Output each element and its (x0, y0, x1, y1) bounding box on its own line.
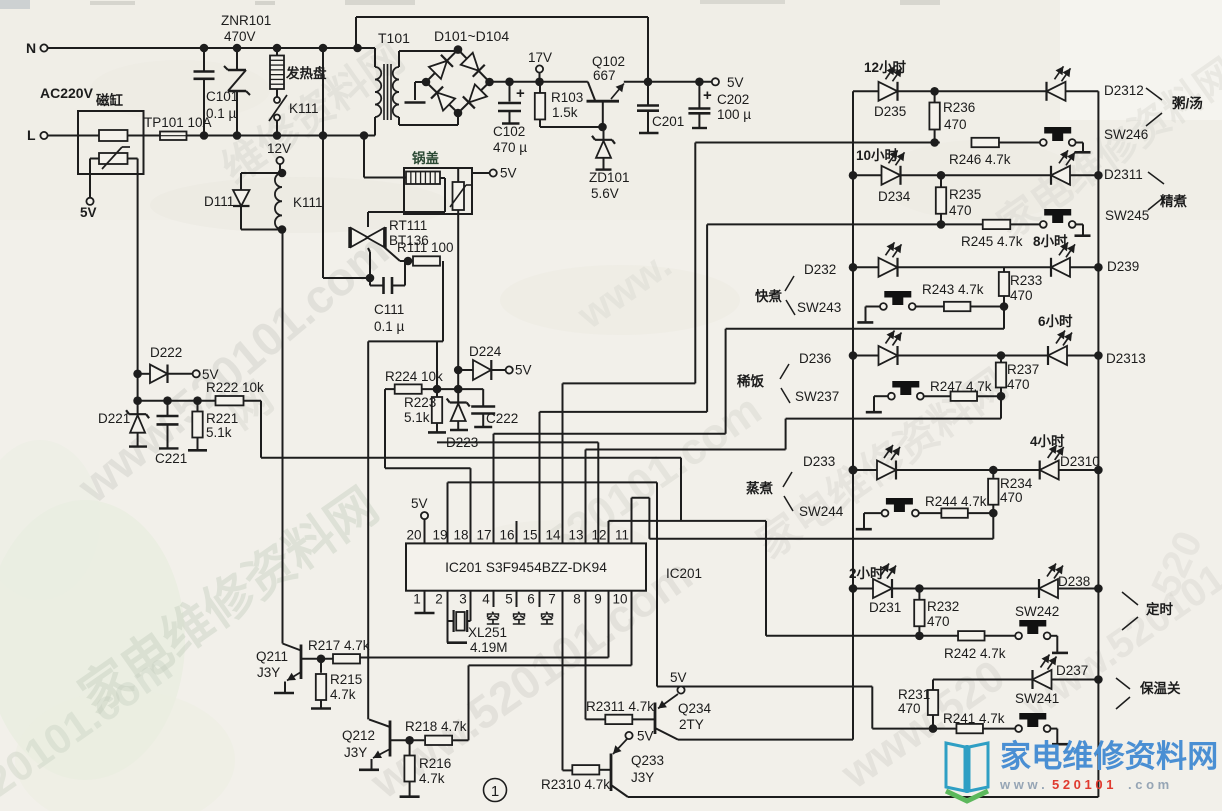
svg-text:470: 470 (1010, 288, 1033, 303)
node link-L (319, 131, 328, 140)
LED D2310 (1040, 445, 1100, 480)
pin 8 to R2311 (586, 591, 606, 720)
node R237 top (997, 351, 1006, 360)
svg-text:470 µ: 470 µ (493, 140, 527, 155)
switch SW237row (866, 381, 924, 412)
resistor R236 (929, 91, 975, 142)
svg-text:12: 12 (591, 528, 606, 543)
zener D223 (446, 389, 478, 450)
svg-text:667: 667 (593, 68, 616, 83)
node bridge right (485, 78, 494, 87)
switch SW243 (857, 291, 915, 322)
label 2小时 (849, 565, 884, 581)
wire thermistor net (261, 457, 681, 459)
scan mottle (90, 60, 1080, 570)
svg-text:D101~D104: D101~D104 (434, 28, 509, 44)
svg-text:J3Y: J3Y (344, 745, 367, 760)
node R235 bottom (937, 220, 946, 229)
svg-text:R111 100: R111 100 (397, 240, 454, 255)
svg-text:5V: 5V (637, 729, 654, 744)
transformer T101 primary (375, 67, 381, 117)
svg-text:4小时: 4小时 (1030, 433, 1065, 449)
svg-text:. c o m: . c o m (1128, 777, 1169, 792)
SW245 ground (1075, 224, 1091, 235)
resistor R232 (914, 589, 959, 636)
terminal N (26, 40, 48, 56)
svg-text:w w w .: w w w . (999, 777, 1045, 792)
svg-text:IC201: IC201 (666, 566, 702, 581)
svg-text:空: 空 (486, 611, 500, 627)
svg-text:0.1 µ: 0.1 µ (374, 319, 405, 334)
svg-text:R218 4.7k: R218 4.7k (405, 719, 467, 734)
LED D238 (1039, 564, 1090, 599)
wire top rail (356, 17, 648, 82)
pin 20 to 5V (411, 496, 428, 543)
resistor R218 (405, 719, 469, 745)
SW244 row wire (919, 512, 993, 514)
node Q212 base (405, 736, 414, 745)
LED D232 (879, 242, 902, 276)
capacitor C222 (471, 389, 518, 427)
svg-text:快煮: 快煮 (755, 288, 783, 304)
svg-text:R217 4.7k: R217 4.7k (308, 638, 370, 653)
row5 wire (853, 469, 1098, 471)
wire divider2 row (385, 388, 483, 390)
wire SW241 net to pin19 (448, 482, 658, 686)
resistor R233 (999, 267, 1042, 306)
Q212 base wire (390, 739, 424, 741)
switch SW242 (1015, 604, 1059, 639)
svg-text:ZNR101: ZNR101 (221, 13, 271, 28)
svg-text:R234: R234 (1000, 476, 1033, 491)
row2 wire (853, 174, 1098, 176)
svg-text:保温关: 保温关 (1139, 680, 1181, 696)
Q234 base wire (632, 718, 655, 720)
resistor R2311 (586, 699, 654, 724)
IC201 top pin numbers (406, 528, 629, 543)
row7 wire (933, 679, 1098, 681)
wire SW237 net to pin13 (586, 450, 786, 544)
resistor R246 (949, 138, 1011, 167)
svg-text:R243 4.7k: R243 4.7k (922, 282, 984, 297)
resistor R243 (922, 282, 984, 311)
svg-text:T101: T101 (378, 30, 410, 46)
svg-text:稀饭: 稀饭 (737, 373, 765, 389)
label 粥/汤 callout (1146, 88, 1203, 126)
svg-text:R216: R216 (419, 756, 451, 771)
svg-text:ZD101: ZD101 (589, 170, 630, 185)
svg-text:20: 20 (406, 528, 421, 543)
svg-text:R237: R237 (1007, 362, 1039, 377)
node row1 mid (930, 87, 939, 96)
svg-text:D238: D238 (1058, 574, 1090, 589)
svg-text:D231: D231 (869, 600, 901, 615)
svg-text:R233: R233 (1010, 273, 1042, 288)
svg-text:IC201 S3F9454BZZ-DK94: IC201 S3F9454BZZ-DK94 (445, 560, 607, 575)
node C202 top (695, 78, 704, 87)
svg-text:5: 5 (505, 592, 513, 607)
wire 磁缸 right rail down (128, 159, 138, 401)
svg-text:定时: 定时 (1146, 601, 1174, 617)
svg-text:粥/汤: 粥/汤 (1172, 95, 1203, 111)
svg-text:R223: R223 (404, 395, 436, 410)
SW241 row wire (872, 728, 1015, 730)
capacitor C101 (194, 48, 239, 136)
node row2 left (849, 171, 858, 180)
terminal 5V under 磁缸 (80, 198, 97, 220)
terminal 5V D222 (193, 367, 219, 382)
SW243 row wire (916, 306, 1004, 308)
svg-text:15: 15 (522, 528, 537, 543)
node row4 right (1094, 351, 1103, 360)
wire gate node riser (436, 341, 438, 389)
wire SW242 net to pin12 (609, 521, 767, 544)
node R237 bottom (997, 392, 1006, 401)
svg-text:18: 18 (453, 528, 468, 543)
LED D233 (877, 445, 900, 480)
node coil top (278, 169, 287, 178)
node K111-L (273, 131, 282, 140)
wire secondary top (399, 51, 458, 67)
svg-text:9: 9 (594, 592, 602, 607)
label 6小时 (1038, 313, 1073, 329)
capacitor C102 (493, 82, 527, 155)
crystal XL251 (448, 610, 508, 655)
pin 1 ground (415, 591, 435, 613)
pin 2 stub (447, 591, 449, 643)
svg-text:14: 14 (545, 528, 561, 543)
svg-text:R221: R221 (206, 411, 238, 426)
SW242 row wire (766, 635, 1015, 637)
wire net to pin16 (517, 458, 682, 544)
node bridge top (454, 45, 463, 54)
label 保温关 callout (1116, 678, 1181, 709)
bridge rectifier D101~D104 (426, 50, 490, 113)
transformer T101 secondary (393, 67, 399, 117)
LED D231 (869, 564, 901, 616)
svg-text:470: 470 (898, 701, 921, 716)
svg-text:K111: K111 (293, 195, 323, 210)
svg-text:D224: D224 (469, 344, 502, 359)
svg-text:5V: 5V (80, 205, 97, 220)
svg-text:470: 470 (949, 203, 972, 218)
svg-text:17: 17 (476, 528, 491, 543)
wire D111 loop (241, 173, 282, 230)
svg-text:R231: R231 (898, 687, 930, 702)
node bridge bottom (454, 109, 463, 118)
node R234 top (989, 466, 998, 475)
wire primary bottom (364, 117, 375, 136)
svg-text:470: 470 (927, 614, 950, 629)
svg-text:Q233: Q233 (631, 753, 664, 768)
svg-text:SW245: SW245 (1105, 208, 1149, 223)
node row2 mid (937, 171, 946, 180)
node coil bottom (278, 225, 287, 234)
svg-text:C111: C111 (374, 302, 404, 317)
wire secondary bottom (399, 113, 458, 125)
svg-text:D232: D232 (804, 262, 836, 277)
svg-text:C201: C201 (652, 114, 684, 129)
thermistor in 磁缸 (99, 147, 130, 169)
row3 wire (853, 266, 1098, 268)
lid fuse (364, 136, 440, 185)
wire N rail (48, 47, 358, 49)
svg-text:Q102: Q102 (592, 54, 625, 69)
svg-text:J3Y: J3Y (631, 770, 654, 785)
svg-text:1: 1 (491, 783, 499, 800)
label D232 callout (755, 262, 841, 315)
svg-text:C102: C102 (493, 124, 525, 139)
Q234 collector wire (678, 739, 853, 741)
resistor R215 (311, 659, 362, 709)
magnet-switch box 磁缸 (78, 92, 144, 174)
svg-text:7: 7 (548, 592, 556, 607)
diode D222 (133, 345, 192, 383)
svg-text:锅盖: 锅盖 (412, 150, 439, 166)
svg-text:AC220V: AC220V (40, 85, 94, 101)
svg-text:SW243: SW243 (797, 300, 841, 315)
svg-text:R235: R235 (949, 187, 981, 202)
svg-text:100 µ: 100 µ (717, 107, 751, 122)
wire 5V rail (624, 81, 712, 83)
LED D236 (879, 331, 902, 366)
resistor R231 (898, 680, 938, 729)
node R232 top (915, 584, 924, 593)
node triac-C111 (366, 274, 375, 283)
svg-text:0.1 µ: 0.1 µ (206, 106, 237, 121)
svg-text:RT111: RT111 (389, 218, 427, 233)
SW241 ground (1051, 729, 1069, 745)
scan noise top edge (0, 0, 940, 9)
SW237 row wire (924, 395, 1001, 397)
triac RT111 (350, 218, 429, 248)
wire vertical N-L link (322, 48, 324, 278)
wire SW237 net path (786, 396, 1001, 449)
row4 wire (853, 355, 1098, 357)
node divider2 R223 (433, 385, 442, 394)
svg-text:3: 3 (459, 592, 467, 607)
wire SW242 net riser (765, 521, 767, 636)
svg-text:R241 4.7k: R241 4.7k (943, 711, 1005, 726)
pin 3 stub (467, 591, 470, 621)
resistor R103 (535, 82, 603, 127)
svg-text:R2311 4.7k: R2311 4.7k (586, 699, 654, 714)
node divider2 D223 (454, 385, 463, 394)
node 17V (535, 78, 544, 87)
svg-text:5V: 5V (515, 363, 532, 378)
wire SW243 net riser (725, 329, 727, 434)
terminal 17V (528, 50, 552, 82)
transistor Q212 (342, 719, 390, 760)
logo book icon (946, 743, 988, 801)
zener D221 (98, 401, 149, 447)
resistor R216 (400, 740, 452, 796)
label D236 callout (737, 351, 839, 404)
Q233 collector bottom rail (628, 796, 1098, 798)
SW242 ground (1051, 636, 1069, 653)
LED D2313 (1048, 331, 1146, 367)
pin 7 to R2310 (563, 591, 572, 771)
lid thermistor (450, 168, 471, 210)
svg-text:5V: 5V (670, 670, 687, 685)
node R103-ZD101 (598, 123, 607, 132)
svg-text:2TY: 2TY (679, 717, 704, 732)
label AC220V (40, 85, 94, 101)
resistor R224 (395, 384, 422, 393)
label 8小时 (1033, 233, 1068, 249)
svg-text:5.6V: 5.6V (591, 186, 619, 201)
svg-text:470V: 470V (224, 29, 256, 44)
svg-text:2: 2 (435, 592, 443, 607)
terminal 5V lid (472, 166, 517, 181)
wire coil to Q211 collector (282, 230, 284, 644)
node link-N (319, 44, 328, 53)
svg-text:N: N (26, 40, 36, 56)
resistor R245 (961, 220, 1023, 249)
svg-text:2小时: 2小时 (849, 565, 884, 581)
transistor Q233 J3Y (611, 729, 664, 798)
svg-text:D221: D221 (98, 411, 130, 426)
node heater-N (273, 44, 282, 53)
capacitor C111 (370, 261, 405, 334)
terminal L (27, 127, 48, 143)
svg-text:XL251: XL251 (468, 625, 507, 640)
resistor R111 (397, 240, 454, 266)
node row6 right (1094, 584, 1103, 593)
fuse TP101 (144, 115, 212, 140)
wire SW243 net to pin17 (494, 434, 726, 544)
svg-text:发热盘: 发热盘 (285, 65, 327, 81)
svg-text:5V: 5V (727, 75, 744, 90)
svg-text:+: + (703, 87, 712, 104)
diode D224 (458, 344, 506, 380)
svg-text:SW241: SW241 (1015, 691, 1059, 706)
resistor R237 (996, 356, 1039, 397)
svg-text:1.5k: 1.5k (552, 105, 578, 120)
node R234 bottom (989, 509, 998, 518)
resistor R2310 (541, 765, 610, 792)
transistor Q102 (587, 54, 626, 127)
resistor R222 (206, 380, 264, 405)
label 精煮 callout (1148, 172, 1188, 210)
svg-text:精煮: 精煮 (1160, 193, 1188, 209)
resistor R223 (404, 389, 446, 432)
node row2 right (1094, 171, 1103, 180)
resistor R217 (308, 638, 370, 664)
IC201 part number (445, 560, 607, 575)
svg-text:12V: 12V (267, 141, 291, 156)
resistor R221 (188, 401, 238, 451)
SW243 net wire (726, 307, 1004, 329)
capacitor C202 (688, 82, 751, 128)
wire 磁缸 to 5V (90, 159, 99, 198)
transformer T101 core (384, 64, 391, 120)
svg-text:R247 4.7k: R247 4.7k (930, 379, 992, 394)
node ZNR101-N (233, 44, 242, 53)
svg-text:13: 13 (568, 528, 583, 543)
node ZNR101-L (233, 131, 242, 140)
node gate (404, 257, 413, 266)
svg-text:+: + (516, 85, 525, 102)
svg-text:Q212: Q212 (342, 728, 375, 743)
svg-text:TP101 10A: TP101 10A (144, 115, 212, 130)
terminal 12V (267, 141, 291, 173)
svg-text:6: 6 (527, 592, 535, 607)
svg-text:D234: D234 (878, 189, 911, 204)
node primary-L (360, 131, 369, 140)
zener ZD101 (589, 127, 630, 201)
switch SW246 (1040, 127, 1148, 146)
node row5 left (849, 466, 858, 475)
node R231 bottom (929, 724, 938, 733)
svg-text:5 2 0 1 0 1: 5 2 0 1 0 1 (1052, 777, 1113, 792)
capacitor C221 (155, 401, 187, 466)
svg-text:D2312: D2312 (1104, 83, 1144, 98)
svg-text:D239: D239 (1107, 259, 1139, 274)
svg-text:D235: D235 (874, 104, 906, 119)
right rail (1097, 91, 1099, 797)
svg-text:D233: D233 (803, 454, 835, 469)
bridge D101-D104 label (434, 28, 509, 44)
svg-text:470: 470 (944, 117, 967, 132)
svg-text:蒸煮: 蒸煮 (746, 480, 774, 496)
node row7 right (1094, 675, 1103, 684)
svg-text:R244 4.7k: R244 4.7k (925, 494, 987, 509)
svg-text:R2310 4.7k: R2310 4.7k (541, 777, 610, 792)
svg-text:SW244: SW244 (799, 504, 844, 519)
LED D2311 (1051, 150, 1143, 185)
node divider left (133, 396, 202, 405)
svg-text:4.19M: 4.19M (470, 640, 508, 655)
wire primary top (358, 48, 376, 67)
svg-text:17V: 17V (528, 50, 552, 65)
node toprail-N (353, 44, 362, 53)
svg-text:Q211: Q211 (256, 649, 288, 664)
resistor R234 (988, 470, 1033, 513)
row1 wire (853, 90, 1098, 92)
sensor line down (457, 210, 459, 389)
svg-text:10: 10 (612, 592, 627, 607)
wire aux net to pin12 (437, 442, 598, 543)
label 4小时 (1030, 433, 1065, 449)
label 定时 callout (1122, 592, 1174, 630)
wire DC rail (490, 81, 588, 83)
logo site name (1000, 739, 1218, 774)
node row4 left (849, 351, 858, 360)
LED D2312 (1047, 66, 1144, 101)
svg-text:5V: 5V (411, 496, 428, 511)
svg-text:4: 4 (482, 592, 490, 607)
wire SW245 net riser (706, 224, 708, 412)
svg-text:空: 空 (540, 611, 554, 627)
Q211 emitter ground (274, 682, 294, 694)
svg-text:470: 470 (1000, 490, 1023, 505)
svg-text:R236: R236 (943, 100, 975, 115)
row6 wire (853, 588, 1098, 590)
switch SW245 (1040, 208, 1149, 228)
resistor R241 (943, 711, 1005, 733)
svg-text:R246 4.7k: R246 4.7k (949, 152, 1011, 167)
wire R111 down (442, 261, 444, 341)
svg-text:11: 11 (615, 528, 629, 543)
svg-text:1: 1 (413, 592, 421, 607)
sensor contact in 磁缸 (99, 130, 128, 141)
svg-text:磁缸: 磁缸 (96, 92, 123, 108)
pin 9 net (360, 591, 609, 658)
terminal 5V main (712, 75, 744, 90)
svg-text:8: 8 (573, 592, 581, 607)
svg-text:D222: D222 (150, 345, 182, 360)
